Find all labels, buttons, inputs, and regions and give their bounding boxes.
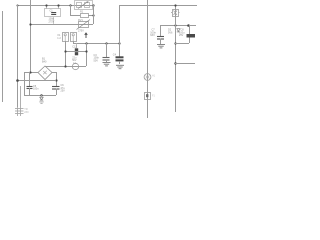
transformer TR1 terminal symbol (15, 107, 24, 116)
svg-text:25V: 25V (179, 34, 184, 37)
diode D1 to ground (41, 95, 43, 97)
svg-text:63V: 63V (150, 34, 155, 37)
varistor RV1 (79, 22, 89, 28)
wire y95 horizontal (24, 95, 56, 97)
wire pin2 down x73 (73, 41, 75, 43)
svg-text:RV1: RV1 (78, 19, 83, 22)
ground under C4 (116, 65, 124, 68)
wire vertical x93 (93, 5, 95, 24)
node dot 93,15 (92, 14, 94, 16)
node dot 86,51 (85, 50, 87, 52)
lamp H1 circle on x147 (144, 74, 151, 81)
wire rail y25 right (160, 25, 196, 27)
node dot 30,72 (29, 71, 31, 73)
svg-text:50V: 50V (94, 59, 99, 62)
wire N rail y24 left (30, 24, 93, 26)
corner dot 17,5 (17, 5, 19, 7)
svg-text:100n: 100n (33, 88, 39, 91)
wire bridge right vertex (52, 72, 56, 74)
svg-text:1 2: 1 2 (57, 37, 61, 40)
wire y63 horizontal (175, 63, 195, 65)
node dot 86,43 (85, 42, 87, 44)
wire vertical x106 (106, 43, 108, 57)
svg-text:25V: 25V (61, 89, 66, 92)
node dot 175,5 (174, 4, 176, 6)
capacitor C1 X2 box (46, 5, 48, 9)
node dot 175,63 (174, 62, 176, 64)
svg-text:275V: 275V (78, 29, 84, 32)
node dot 30,24 (29, 23, 31, 25)
relay K1 contact box (75, 1, 93, 10)
fuse F2 x175 (175, 5, 177, 25)
node dot 46,5 (45, 4, 47, 6)
wire y66 bridge top to x86 (45, 66, 86, 68)
wire y51 horizontal (65, 51, 86, 53)
node dot 70,5 (69, 4, 71, 6)
wire pin1 down x65 (65, 41, 67, 66)
wire vertical x30 (30, 0, 32, 72)
svg-text:C1: C1 (50, 9, 54, 12)
node dot 56,80 (55, 79, 57, 81)
capacitor C5 (29, 72, 31, 86)
arrow mark below varistor (85, 33, 88, 38)
node dot 58,5 (57, 4, 59, 6)
wire y43 right horizontal (175, 43, 189, 45)
wire x24 down (24, 72, 26, 95)
svg-text:275V: 275V (49, 20, 55, 23)
wire y43 horizontal (73, 43, 119, 45)
node dot 175,43 (174, 42, 176, 44)
node dot 188,25 (187, 24, 190, 27)
svg-text:C4: C4 (113, 53, 117, 56)
node dot 41,95 (40, 94, 42, 96)
svg-text:F1: F1 (152, 94, 155, 97)
wire vertical x86 (86, 43, 88, 66)
node dot 175,25 (174, 24, 176, 26)
wire top rail right y5 (119, 5, 197, 7)
node dot 17,80 (16, 79, 19, 82)
node dot 65,51 (64, 50, 66, 52)
fuse F1 box on x147 (145, 93, 151, 100)
ground under C3 (103, 63, 111, 66)
wire vertical x17 (17, 5, 19, 107)
wire frame border left (2, 11, 4, 102)
node dot 119,43 (118, 42, 120, 44)
svg-text:230: 230 (24, 111, 29, 114)
wire y72 to bridge left (24, 72, 38, 74)
node dot 65,66 (64, 65, 66, 67)
wire x56 down (56, 72, 58, 86)
wire vertical x20 lower (20, 86, 22, 107)
capacitor C2 polarized (76, 43, 78, 48)
resistor R1 (70, 5, 72, 15)
wire vertical x119 (119, 5, 121, 57)
ground under D1 (39, 101, 43, 103)
svg-text:5V6: 5V6 (168, 31, 173, 34)
svg-text:H1: H1 (152, 74, 156, 77)
ground under C7 (157, 45, 165, 48)
wire x175 down (175, 24, 177, 112)
svg-text:C12: C12 (72, 45, 77, 48)
wire vertical x147 (147, 0, 149, 118)
capacitor C6 (52, 86, 60, 88)
wire y80 horizontal (17, 80, 56, 82)
wire L rail top-left y5 (17, 5, 93, 7)
node dot 93,5 (92, 4, 94, 6)
svg-text:B40: B40 (42, 61, 47, 64)
node dot 106,43 (105, 42, 107, 44)
